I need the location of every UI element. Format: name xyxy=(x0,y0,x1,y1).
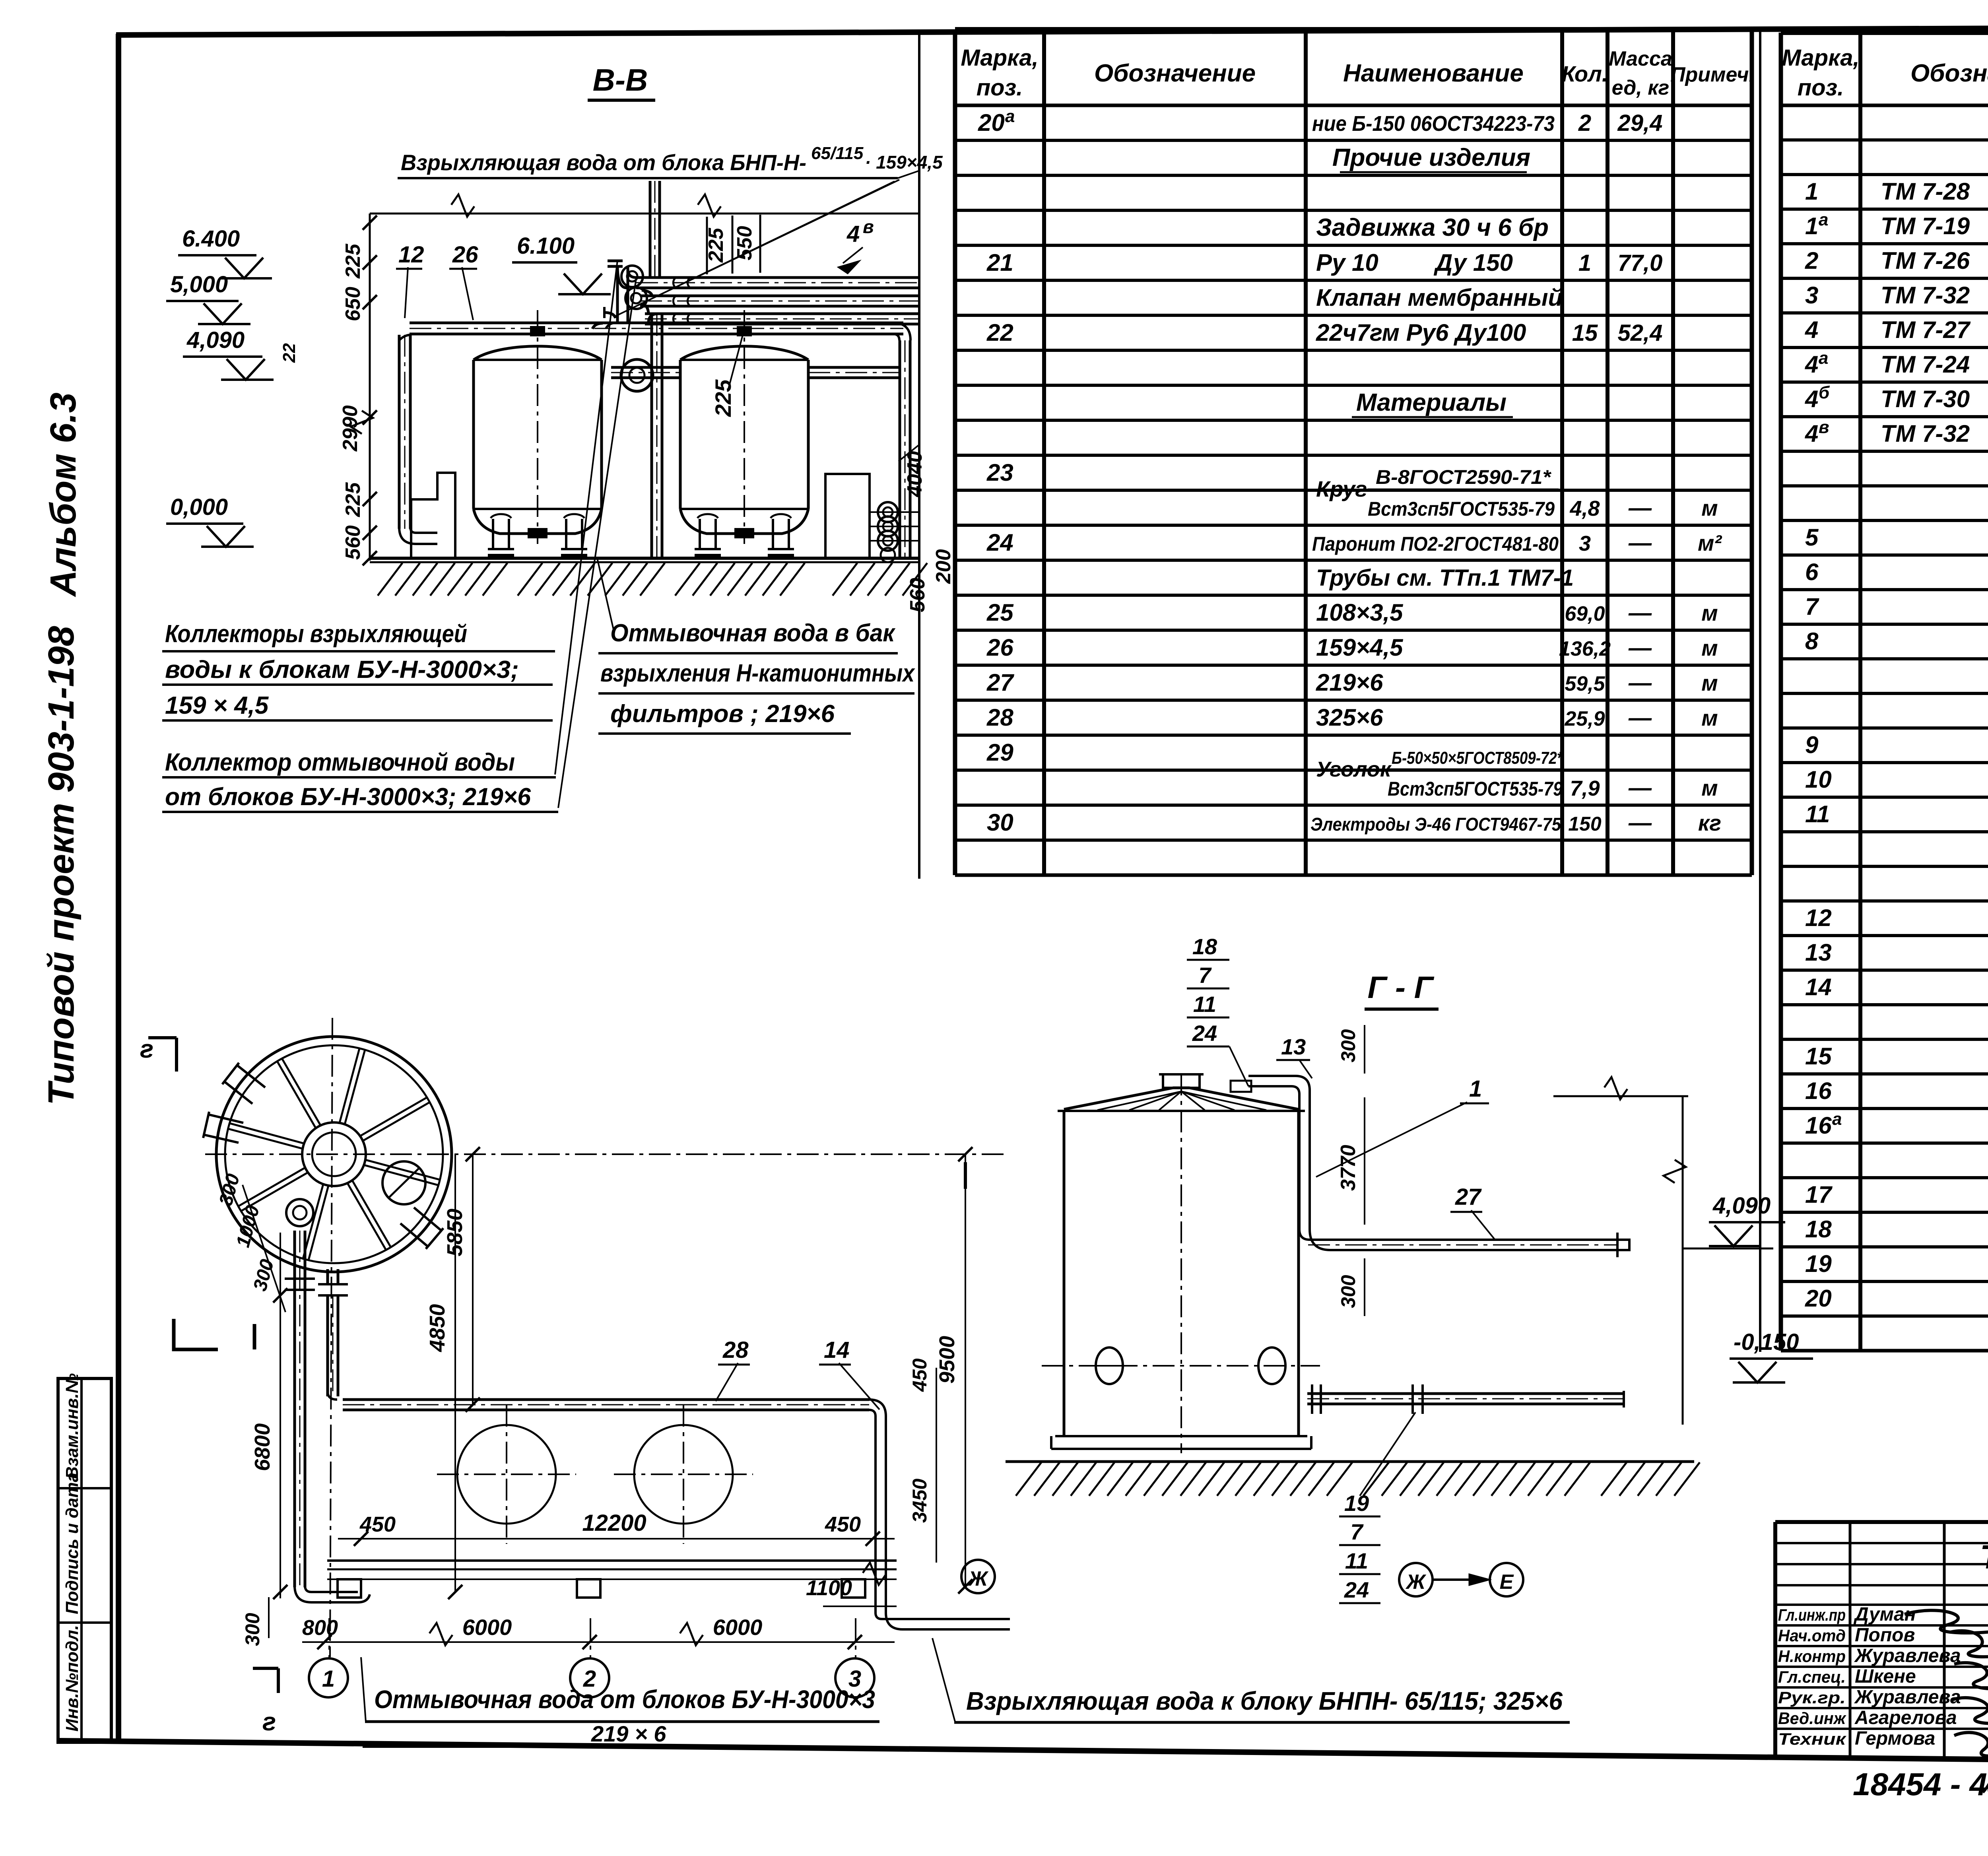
svg-text:-0,150: -0,150 xyxy=(1734,1329,1799,1355)
svg-text:7: 7 xyxy=(1198,963,1212,988)
svg-text:27: 27 xyxy=(1455,1184,1482,1210)
svg-text:а: а xyxy=(1819,210,1828,229)
svg-text:8: 8 xyxy=(1805,628,1819,654)
svg-text:18: 18 xyxy=(1805,1216,1832,1243)
svg-text:Г - Г: Г - Г xyxy=(1367,970,1434,1005)
tank (left filter vessel) xyxy=(472,360,475,509)
svg-text:325×6: 325×6 xyxy=(1316,704,1383,731)
plan: riser pipe down to main run xyxy=(326,1295,329,1396)
tank plan: outer shell circles xyxy=(216,1037,452,1272)
svg-text:Шкене: Шкене xyxy=(1855,1666,1916,1687)
plan: drain pipe bottom elbow xyxy=(295,1586,358,1602)
plan: foundation strip xyxy=(327,1559,897,1562)
svg-text:7: 7 xyxy=(1350,1519,1364,1544)
svg-text:19: 19 xyxy=(1805,1250,1832,1277)
overhead pipe bundle (3 pipes) xyxy=(636,276,918,279)
floor hatching xyxy=(378,563,402,596)
svg-text:—: — xyxy=(1628,670,1652,696)
tank Г-Г: conical roof xyxy=(1058,1110,1305,1112)
svg-text:Б-50×50×5ГОСТ8509-72*: Б-50×50×5ГОСТ8509-72* xyxy=(1392,748,1563,768)
tank plan: centre hub xyxy=(302,1122,366,1186)
svg-text:59,5: 59,5 xyxy=(1565,672,1605,695)
svg-text:300: 300 xyxy=(1337,1029,1359,1062)
tank plan: roof spokes xyxy=(365,1160,440,1180)
svg-text:—: — xyxy=(1628,705,1652,731)
centre riser pipe between tanks xyxy=(650,314,653,557)
svg-text:Попов: Попов xyxy=(1855,1625,1915,1646)
svg-text:12200: 12200 xyxy=(582,1510,646,1536)
svg-text:1: 1 xyxy=(1805,178,1818,205)
svg-text:а: а xyxy=(1832,1109,1842,1129)
svg-text:65/115: 65/115 xyxy=(811,144,864,163)
svg-text:19: 19 xyxy=(1344,1491,1369,1516)
svg-text:Инв.№подл.: Инв.№подл. xyxy=(62,1625,82,1732)
plan: right elbow of main run xyxy=(869,1400,886,1613)
svg-text:ТП 903-1-198: ТП 903-1-198 xyxy=(1980,1538,1988,1576)
svg-text:22ч7гм Ру6 Ду100: 22ч7гм Ру6 Ду100 xyxy=(1316,319,1526,346)
svg-text:В-8ГОСТ2590-71*: В-8ГОСТ2590-71* xyxy=(1376,466,1552,488)
svg-text:560: 560 xyxy=(906,578,929,612)
lower pipe flanges xyxy=(1411,1384,1414,1414)
svg-text:ТМ 7-19: ТМ 7-19 xyxy=(1881,213,1970,239)
plan: axis bubble Ж xyxy=(961,1560,995,1593)
svg-text:9: 9 xyxy=(1805,732,1819,758)
svg-text:450: 450 xyxy=(909,1358,931,1392)
elbow cluster risers to pipe bundle xyxy=(616,267,619,323)
svg-text:Марка,: Марка, xyxy=(961,45,1038,71)
svg-text:16: 16 xyxy=(1805,1077,1832,1104)
svg-text:4: 4 xyxy=(1805,386,1818,412)
svg-text:Уголок: Уголок xyxy=(1316,757,1392,781)
svg-text:воды к блокам БУ-Н-3000×3;: воды к блокам БУ-Н-3000×3; xyxy=(165,656,519,683)
svg-text:Обозначение: Обозначение xyxy=(1910,60,1988,87)
inventory strip table box xyxy=(58,1378,111,1742)
svg-text:—: — xyxy=(1628,775,1652,801)
svg-text:1: 1 xyxy=(1578,250,1591,276)
svg-text:фильтров ; 219×6: фильтров ; 219×6 xyxy=(610,700,835,728)
left pedestal block xyxy=(411,473,455,558)
floor line of section B-B xyxy=(370,557,918,560)
hanger marks on bundle xyxy=(673,278,676,288)
svg-text:Гермова: Гермова xyxy=(1855,1728,1935,1749)
svg-text:6.100: 6.100 xyxy=(517,233,575,259)
svg-text:0,000: 0,000 xyxy=(170,494,228,520)
svg-text:Подпись и дата: Подпись и дата xyxy=(62,1472,82,1614)
svg-text:7,9: 7,9 xyxy=(1570,777,1600,800)
svg-text:а: а xyxy=(1819,348,1828,368)
svg-text:2: 2 xyxy=(1805,247,1818,274)
sheet frame bottom border xyxy=(58,1741,1988,1765)
axis bubbles Ж -> Е xyxy=(1399,1563,1433,1596)
svg-text:поз.: поз. xyxy=(1798,75,1844,101)
svg-text:11: 11 xyxy=(1345,1548,1368,1573)
svg-text:6000: 6000 xyxy=(462,1615,512,1640)
tank (right filter vessel) xyxy=(679,360,682,509)
svg-text:Наименование: Наименование xyxy=(1343,60,1524,87)
svg-text:1: 1 xyxy=(1805,213,1818,239)
separator line between the two tables xyxy=(1759,32,1761,1352)
svg-text:77,0: 77,0 xyxy=(1618,250,1663,276)
svg-text:30: 30 xyxy=(987,809,1013,836)
flange rings in elbow cluster xyxy=(621,266,643,287)
svg-text:21: 21 xyxy=(986,249,1013,276)
svg-text:13: 13 xyxy=(1805,939,1832,966)
svg-text:ТМ 7-28: ТМ 7-28 xyxy=(1881,178,1970,205)
tank plan: rim nozzle stubs xyxy=(224,1081,252,1104)
svg-text:м: м xyxy=(1701,705,1718,730)
svg-text:ТМ 7-26: ТМ 7-26 xyxy=(1881,247,1970,274)
svg-text:поз.: поз. xyxy=(977,75,1023,101)
svg-text:ние Б-150 06ОСТ34223-73: ние Б-150 06ОСТ34223-73 xyxy=(1312,112,1555,136)
svg-text:от блоков БУ-Н-3000×3; 219×: от блоков БУ-Н-3000×3; 219×6 xyxy=(165,783,531,811)
tank Г-Г: shell manholes xyxy=(1096,1347,1123,1384)
svg-text:4: 4 xyxy=(846,221,860,247)
svg-text:24: 24 xyxy=(1192,1021,1217,1046)
svg-text:Типовой проект 903-1-198: Типовой проект 903-1-198 xyxy=(41,625,82,1105)
svg-text:11: 11 xyxy=(1193,992,1216,1017)
plan: support pads xyxy=(338,1579,361,1598)
svg-text:560: 560 xyxy=(342,525,365,560)
right pedestal block xyxy=(825,474,870,558)
svg-text:Ру 10: Ру 10 xyxy=(1316,249,1378,276)
svg-text:52,4: 52,4 xyxy=(1618,320,1663,346)
tank Г-Г: centrelines xyxy=(1042,1365,1320,1367)
svg-text:Паронит ПО2-2ГОСТ481-80: Паронит ПО2-2ГОСТ481-80 xyxy=(1312,533,1559,555)
svg-text:800: 800 xyxy=(302,1616,338,1640)
svg-text:Коллекторы взрыхляющей: Коллекторы взрыхляющей xyxy=(165,620,467,648)
svg-text:5,000: 5,000 xyxy=(170,272,228,297)
svg-text:Коллектор отмывочной воды: Коллектор отмывочной воды xyxy=(165,749,515,776)
plan: rotated dim 6800 xyxy=(280,1233,281,1598)
svg-text:м: м xyxy=(1701,775,1718,800)
svg-text:4,090: 4,090 xyxy=(1712,1193,1771,1219)
plan: future tank circles xyxy=(457,1425,556,1524)
svg-text:3450: 3450 xyxy=(909,1479,931,1523)
title block signature table xyxy=(1849,1522,1852,1757)
tank Г-Г: top hatch xyxy=(1163,1074,1200,1088)
svg-text:Техник: Техник xyxy=(1778,1730,1846,1748)
svg-text:225: 225 xyxy=(711,379,736,417)
svg-text:3770: 3770 xyxy=(1337,1145,1360,1191)
ceiling beam line xyxy=(370,213,918,215)
svg-text:2990: 2990 xyxy=(339,405,362,452)
svg-text:Журавлева: Журавлева xyxy=(1854,1687,1961,1708)
svg-text:6: 6 xyxy=(1805,559,1819,585)
tank Г-Г: rising pipe with elbows xyxy=(1248,1076,1310,1229)
tank plan: manhole xyxy=(382,1161,425,1204)
svg-text:26: 26 xyxy=(452,242,478,268)
svg-text:Материалы: Материалы xyxy=(1356,389,1507,416)
vertical dimension chain line (B-B left) xyxy=(369,214,371,561)
svg-text:—: — xyxy=(1628,530,1652,556)
left riser pipe (12) xyxy=(398,335,401,529)
svg-text:150: 150 xyxy=(1568,813,1602,835)
svg-text:11: 11 xyxy=(1805,801,1830,827)
svg-text:14: 14 xyxy=(1805,974,1832,1000)
svg-text:4: 4 xyxy=(1805,316,1818,343)
svg-text:Электроды Э-46 ГОСТ9467-75: Электроды Э-46 ГОСТ9467-75 xyxy=(1310,814,1561,835)
svg-text:2: 2 xyxy=(1578,110,1591,136)
svg-text:Трубы см. ТТп.1 ТМ7-1: Трубы см. ТТп.1 ТМ7-1 xyxy=(1316,565,1574,591)
svg-text:Взам.инв.№: Взам.инв.№ xyxy=(62,1373,82,1479)
svg-text:Круг: Круг xyxy=(1316,476,1367,501)
svg-text:4: 4 xyxy=(1805,420,1818,447)
plan: main horizontal pipe run (28) xyxy=(343,1398,869,1401)
svg-text:Вед.инж: Вед.инж xyxy=(1778,1709,1846,1728)
svg-text:4,8: 4,8 xyxy=(1569,497,1600,520)
svg-text:25: 25 xyxy=(986,599,1014,626)
svg-text:136,2: 136,2 xyxy=(1559,637,1611,660)
svg-text:24: 24 xyxy=(1344,1577,1369,1602)
svg-text:ТМ 7-30: ТМ 7-30 xyxy=(1881,386,1970,412)
svg-text:—: — xyxy=(1628,495,1652,521)
svg-text:26: 26 xyxy=(986,634,1013,661)
svg-text:12: 12 xyxy=(398,242,424,268)
svg-text:ед, кг: ед, кг xyxy=(1612,76,1670,99)
svg-text:м: м xyxy=(1701,600,1718,625)
svg-text:219 × 6: 219 × 6 xyxy=(591,1721,666,1746)
svg-text:Гл.спец.: Гл.спец. xyxy=(1778,1668,1846,1686)
svg-text:—: — xyxy=(1628,635,1652,661)
svg-text:ТМ 7-24: ТМ 7-24 xyxy=(1881,351,1970,378)
svg-text:27: 27 xyxy=(986,669,1014,696)
right riser pipe xyxy=(899,340,901,557)
svg-text:12: 12 xyxy=(1805,905,1832,931)
svg-text:кг: кг xyxy=(1698,810,1721,835)
svg-text:4040: 4040 xyxy=(903,451,926,497)
tank Г-Г: shell xyxy=(1063,1111,1066,1436)
svg-text:219×6: 219×6 xyxy=(1316,669,1383,696)
svg-text:10: 10 xyxy=(1805,766,1832,793)
tank Г-Г: bottom ring and base xyxy=(1055,1435,1307,1437)
svg-text:б: б xyxy=(1819,383,1830,402)
svg-text:6800: 6800 xyxy=(250,1423,274,1471)
svg-text:20: 20 xyxy=(978,109,1005,136)
svg-text:650: 650 xyxy=(342,287,365,321)
svg-text:6.400: 6.400 xyxy=(182,226,240,252)
svg-text:Задвижка 30 ч 6 бр: Задвижка 30 ч 6 бр xyxy=(1316,214,1549,241)
flange pair on centre riser xyxy=(621,359,653,391)
svg-text:Отмывочная вода в бак: Отмывочная вода в бак xyxy=(610,619,895,647)
riser stub above ceiling xyxy=(649,181,652,278)
svg-text:Журавлева: Журавлева xyxy=(1854,1645,1961,1666)
lower outlet pipe from tank xyxy=(1307,1392,1624,1395)
svg-text:159 × 4,5: 159 × 4,5 xyxy=(165,692,269,719)
section cut mark Г (bottom) xyxy=(277,1668,280,1693)
plan: rotated dims 5850 / 4850 xyxy=(472,1154,474,1405)
plan: right dim chain 450 3450 9500 xyxy=(936,1368,937,1563)
svg-text:225: 225 xyxy=(705,227,728,263)
svg-text:22: 22 xyxy=(986,319,1013,346)
svg-text:550: 550 xyxy=(733,226,756,260)
svg-text:м²: м² xyxy=(1698,530,1722,555)
svg-text:9500: 9500 xyxy=(935,1336,959,1384)
svg-text:28: 28 xyxy=(722,1337,749,1363)
signatures scrawl xyxy=(1905,1610,1988,1633)
svg-text:28: 28 xyxy=(986,704,1013,731)
svg-text:а: а xyxy=(1005,107,1015,126)
svg-text:4: 4 xyxy=(1805,351,1818,378)
separator line between drawing area and left table xyxy=(918,33,920,879)
sheet frame left border xyxy=(116,34,121,1742)
svg-text:7: 7 xyxy=(1805,593,1819,620)
svg-text:16: 16 xyxy=(1805,1112,1832,1139)
svg-text:Масса: Масса xyxy=(1609,47,1672,70)
svg-text:Агарелова: Агарелова xyxy=(1854,1707,1957,1728)
svg-text:г: г xyxy=(140,1035,153,1063)
svg-text:18: 18 xyxy=(1192,934,1217,959)
svg-text:Рук.гр.: Рук.гр. xyxy=(1778,1688,1846,1707)
svg-text:159×4,5: 159×4,5 xyxy=(1316,634,1404,661)
svg-text:Ж: Ж xyxy=(967,1567,989,1590)
branch pipe right tank to right riser xyxy=(808,366,899,369)
svg-text:м: м xyxy=(1701,635,1718,660)
svg-text:Прочие изделия: Прочие изделия xyxy=(1332,144,1530,171)
svg-text:Нач.отд: Нач.отд xyxy=(1778,1626,1846,1645)
svg-text:4,090: 4,090 xyxy=(186,327,245,353)
svg-text:—: — xyxy=(1628,600,1652,626)
stacked valves at right pedestal xyxy=(878,502,898,522)
svg-text:225: 225 xyxy=(342,482,365,517)
svg-text:Взрыхляющая вода к блоку Б: Взрыхляющая вода к блоку БНПН- 65/115; 3… xyxy=(966,1687,1563,1715)
pipe 27 horizontal run xyxy=(1299,1229,1617,1240)
svg-text:Вст3сп5ГОСТ535-79: Вст3сп5ГОСТ535-79 xyxy=(1388,778,1563,800)
svg-text:—: — xyxy=(1628,810,1652,836)
svg-text:13: 13 xyxy=(1281,1034,1306,1059)
svg-text:25,9: 25,9 xyxy=(1564,707,1605,730)
svg-text:225: 225 xyxy=(342,243,365,279)
plan: riser pipe flange xyxy=(318,1283,348,1285)
svg-text:· 159×4,5: · 159×4,5 xyxy=(865,152,943,173)
svg-text:200: 200 xyxy=(932,549,955,584)
svg-text:ТМ 7-27: ТМ 7-27 xyxy=(1881,316,1971,343)
title block outer box xyxy=(1775,1520,1988,1524)
svg-text:20: 20 xyxy=(1805,1285,1832,1312)
svg-text:Ду 150: Ду 150 xyxy=(1433,249,1513,276)
svg-text:15: 15 xyxy=(1805,1043,1832,1070)
svg-text:Вст3сп5ГОСТ535-79: Вст3сп5ГОСТ535-79 xyxy=(1368,498,1555,520)
tank Г-Г: roof truss struts xyxy=(1097,1091,1181,1110)
left riser bottom elbow and stub xyxy=(399,527,437,544)
svg-text:ТМ 7-32: ТМ 7-32 xyxy=(1881,420,1970,447)
svg-text:1100: 1100 xyxy=(806,1576,852,1600)
svg-text:Отмывочная вода от блоков Б: Отмывочная вода от блоков БУ-Н-3000×3 xyxy=(374,1685,875,1714)
svg-text:3: 3 xyxy=(1805,282,1818,309)
svg-text:29,4: 29,4 xyxy=(1617,110,1663,136)
svg-text:м: м xyxy=(1701,670,1718,695)
svg-text:22: 22 xyxy=(280,343,299,363)
svg-text:450: 450 xyxy=(825,1512,861,1536)
svg-text:69,0: 69,0 xyxy=(1565,602,1605,625)
svg-text:Обозначение: Обозначение xyxy=(1094,60,1256,87)
svg-text:17: 17 xyxy=(1805,1181,1833,1208)
plan: bottom dim line 800/6000/6000 xyxy=(302,1641,895,1643)
long leader lines to collector notes xyxy=(555,260,617,775)
branch pipe to right tank xyxy=(611,366,680,369)
svg-text:Примеч.: Примеч. xyxy=(1670,63,1755,86)
building wall line right xyxy=(1553,1095,1688,1097)
svg-text:в: в xyxy=(863,216,874,237)
sheet frame top border xyxy=(116,26,1988,35)
svg-text:в: в xyxy=(1819,417,1829,437)
svg-text:г: г xyxy=(262,1707,276,1736)
svg-text:3: 3 xyxy=(1579,532,1591,555)
tank Г-Г: nozzle to pipe 13 xyxy=(1231,1081,1251,1092)
svg-text:взрыхления Н-катионитных: взрыхления Н-катионитных xyxy=(600,660,915,687)
svg-text:29: 29 xyxy=(986,739,1013,766)
plan: axis bubbles 1 2 3 xyxy=(309,1658,348,1697)
svg-text:Взрыхляющая вода от блока БНП: Взрыхляющая вода от блока БНП-Н- xyxy=(401,150,806,175)
svg-text:24: 24 xyxy=(986,529,1013,556)
svg-text:Е: Е xyxy=(1500,1571,1514,1594)
plan: riser stub above flange xyxy=(326,1269,329,1283)
svg-text:300: 300 xyxy=(241,1613,264,1646)
svg-text:ТМ 7-32: ТМ 7-32 xyxy=(1881,282,1970,309)
ground line Г-Г xyxy=(1006,1460,1694,1463)
svg-text:450: 450 xyxy=(359,1512,396,1536)
svg-text:15: 15 xyxy=(1572,320,1598,346)
plan: dim line 450/12200/450 xyxy=(338,1538,895,1540)
tank plan: vertical axis line 1 xyxy=(330,1018,332,1657)
plan: drain pipe from tank down xyxy=(293,1231,296,1587)
svg-text:300: 300 xyxy=(1337,1275,1359,1308)
svg-text:Альбом 6.3: Альбом 6.3 xyxy=(43,392,83,597)
elbows joining risers to bundle xyxy=(628,269,636,278)
svg-text:5: 5 xyxy=(1805,524,1819,551)
svg-text:Н.контр: Н.контр xyxy=(1778,1647,1846,1666)
left specification table grid xyxy=(953,29,957,875)
svg-text:108×3,5: 108×3,5 xyxy=(1316,599,1404,626)
leader from pipe label to risers xyxy=(898,171,918,178)
svg-text:1: 1 xyxy=(322,1666,335,1692)
svg-text:6000: 6000 xyxy=(713,1615,763,1640)
tank plan: horizontal centreline xyxy=(205,1153,1006,1155)
svg-text:1: 1 xyxy=(1469,1076,1482,1102)
main horizontal pipe (26) xyxy=(410,322,903,324)
svg-text:23: 23 xyxy=(986,459,1013,486)
svg-text:4850: 4850 xyxy=(425,1304,449,1352)
svg-text:Клапан мембранный: Клапан мембранный xyxy=(1316,284,1563,311)
section cut mark Г (top) xyxy=(148,1036,177,1039)
dimension cell 225 / 550 above bundle xyxy=(706,217,708,274)
svg-text:Ж: Ж xyxy=(1405,1571,1427,1594)
svg-text:Гл.инж.пр: Гл.инж.пр xyxy=(1778,1606,1846,1624)
svg-text:Кол.: Кол. xyxy=(1562,61,1608,86)
svg-text:18454 - 48: 18454 - 48 xyxy=(1853,1767,1988,1802)
svg-text:В-В: В-В xyxy=(593,62,648,97)
right specification table grid xyxy=(1779,33,1783,1351)
building corner marks xyxy=(174,1319,218,1349)
plan: bottom elbow exiting right xyxy=(876,1613,1010,1619)
svg-text:м: м xyxy=(1701,495,1718,520)
svg-text:14: 14 xyxy=(824,1337,850,1363)
svg-text:Марка,: Марка, xyxy=(1782,45,1859,71)
